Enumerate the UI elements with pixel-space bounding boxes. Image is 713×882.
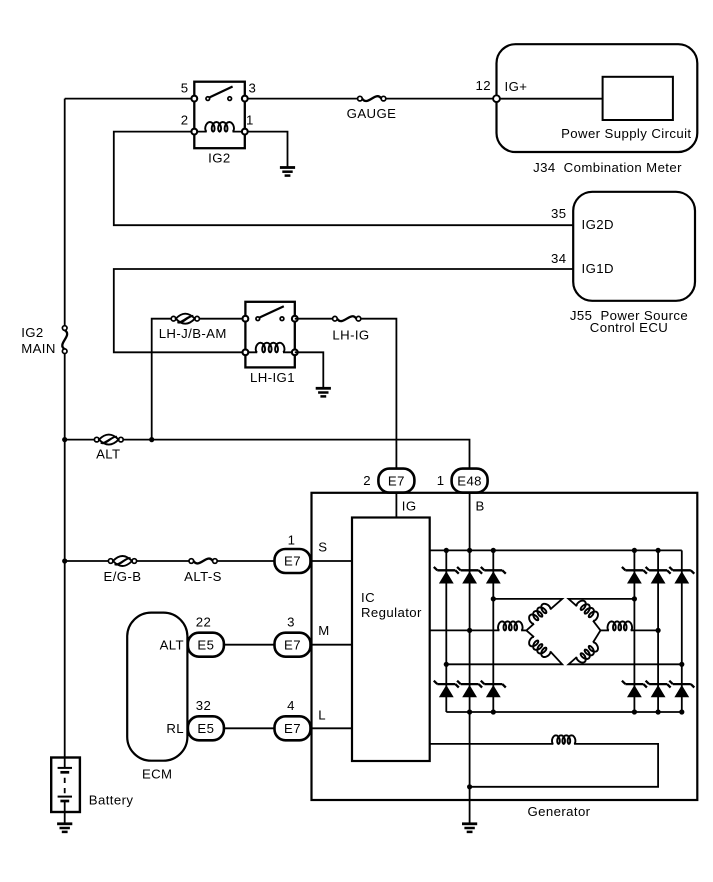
svg-text:IG2D: IG2D [582, 217, 614, 232]
svg-text:5: 5 [181, 80, 189, 95]
svg-text:LH-J/B-AM: LH-J/B-AM [159, 326, 227, 341]
connector E7 pin 3 (M) [275, 615, 311, 657]
connector E7 pin 2 (IG) [363, 469, 414, 493]
junction dot (left phase mid / B column) [467, 628, 472, 633]
svg-text:M: M [318, 623, 329, 638]
wire stator right phase row (coil to column) [601, 629, 609, 631]
ground (generator) [462, 824, 477, 832]
battery bottom lead [64, 801, 66, 824]
relay IG2 [181, 80, 256, 165]
wire S row inside generator to IC regulator [311, 560, 353, 562]
ECU J34 Combination Meter [476, 44, 698, 175]
fuse ALT-S [184, 559, 222, 584]
wire ALT row to connector E48 [65, 440, 470, 469]
field coil (rotor) [552, 735, 575, 744]
svg-text:1: 1 [246, 113, 254, 128]
svg-text:E48: E48 [457, 473, 482, 488]
svg-text:ECM: ECM [142, 766, 173, 781]
wire IG+ to power supply circuit [497, 98, 603, 100]
relay LH-IG1 pin (bottom right) [292, 349, 298, 355]
stator left top branch [493, 599, 562, 631]
stator coil right upper [577, 601, 599, 621]
svg-text:IG2: IG2 [21, 325, 43, 340]
junction dot (top bus left 3) [491, 548, 496, 553]
svg-text:3: 3 [249, 80, 257, 95]
wire stator left center link [521, 629, 526, 631]
junction dot (left phase bottom / column 1) [444, 662, 449, 667]
wire L row: E5 to E7 [224, 727, 275, 729]
wire field circuit from IC regulator [430, 743, 554, 745]
relay LH-IG1 coil [245, 351, 294, 353]
svg-text:Battery: Battery [89, 792, 134, 807]
svg-text:GAUGE: GAUGE [347, 106, 397, 121]
wire relay pin 3 to J34 pin 12 [245, 98, 493, 100]
diode bottom right 2 [646, 681, 671, 698]
relay IG2 switch contacts [206, 97, 210, 101]
svg-text:IG+: IG+ [505, 79, 528, 94]
svg-text:3: 3 [287, 615, 295, 630]
ground (IG2 relay) [280, 168, 295, 176]
wire E48 B line down to generator ground [469, 493, 471, 824]
wire LH-IG row down to connector E7 [295, 319, 397, 469]
junction dot (bottom bus B) [467, 709, 472, 714]
junction dot (top bus right 2) [656, 548, 661, 553]
stator left bottom branch [446, 630, 562, 664]
junction dot (left phase top / column 3) [491, 596, 496, 601]
wire stator left phase row (M row to coil) [430, 629, 500, 631]
junction dot (top bus B) [467, 548, 472, 553]
svg-text:E5: E5 [197, 637, 214, 652]
diode top left 2 [457, 567, 482, 584]
svg-text:4: 4 [287, 698, 295, 713]
ground (battery) [57, 824, 72, 832]
stator coil right lower [577, 642, 599, 662]
diode bottom left 3 [481, 681, 506, 698]
wire rectifier column left 3 [492, 550, 494, 712]
battery dashed link [64, 778, 66, 794]
svg-text:Regulator: Regulator [361, 605, 422, 620]
fusible link ALT [94, 435, 123, 462]
pin 12 (J34) [493, 95, 500, 102]
diode bottom left 2 [457, 681, 482, 698]
battery cell 1 long plate [58, 767, 72, 769]
stator right top branch [569, 599, 635, 631]
junction dot (right phase mid / column 2) [656, 628, 661, 633]
connector E48 pin 1 (B) [437, 469, 488, 493]
svg-text:32: 32 [196, 698, 211, 713]
wire relay pin 1 to ground [245, 132, 288, 168]
junction dot (bottom bus right 2) [656, 709, 661, 714]
svg-text:1: 1 [288, 532, 296, 547]
svg-text:Power Supply Circuit: Power Supply Circuit [561, 126, 691, 141]
diode top left 3 [481, 567, 506, 584]
svg-text:E5: E5 [197, 721, 214, 736]
svg-text:B: B [476, 499, 485, 514]
svg-text:ALT: ALT [160, 637, 184, 652]
svg-text:IG2: IG2 [208, 151, 230, 166]
relay IG2 coil [194, 131, 245, 133]
diode bottom left 1 [434, 681, 459, 698]
junction dot (LH-J/B-AM drop on ALT row) [149, 437, 154, 442]
relay IG2 pin 3 [242, 96, 248, 102]
wire S row: main line to connector E7 [65, 560, 275, 562]
wire rectifier column right 2 [657, 550, 659, 712]
svg-text:1: 1 [437, 473, 445, 488]
wire rectifier column left 1 [445, 550, 447, 712]
junction dot (top bus left 1) [444, 548, 449, 553]
relay LH-IG1 [243, 302, 298, 385]
wire field circuit return to B line [470, 744, 658, 787]
relay IG2 pin 1 [242, 129, 248, 135]
relay IG2 pin 5 [191, 96, 197, 102]
fuse LH-IG [332, 316, 369, 342]
relay LH-IG1 switch contacts [256, 317, 260, 321]
wire LH-J/B-AM row and drop to ALT row [152, 319, 246, 440]
IC regulator box [352, 518, 430, 762]
battery cell 1 short plate [60, 771, 69, 774]
svg-text:S: S [318, 540, 327, 555]
svg-text:LH-IG: LH-IG [332, 328, 369, 343]
stator coil right horizontal [608, 621, 633, 630]
relay LH-IG1 pin (top right) [292, 316, 298, 322]
svg-text:J34 Combination Meter: J34 Combination Meter [533, 160, 682, 175]
ECU ECM [127, 613, 187, 782]
diode top left 1 [434, 567, 459, 584]
svg-text:Control ECU: Control ECU [590, 320, 668, 335]
svg-text:MAIN: MAIN [21, 341, 56, 356]
stator coil left horizontal [498, 621, 523, 630]
junction dot (main/S row) [62, 558, 67, 563]
wire L row inside generator [311, 727, 353, 729]
wire J55 IG1D (pin 34) to relay LH-IG1 coil [114, 269, 573, 352]
junction dot (bottom bus right 1) [632, 709, 637, 714]
ground (LH-IG1) [316, 388, 331, 396]
ECU J55 Power Source Control ECU [551, 192, 695, 335]
relay IG2 pin 2 [191, 129, 197, 135]
wire M row: E5 to E7 [224, 644, 275, 646]
svg-text:E7: E7 [388, 473, 405, 488]
wire main vertical feed (left) [64, 99, 66, 758]
diode top right 2 [646, 567, 671, 584]
relay LH-IG1 pin (bottom left) [243, 349, 249, 355]
fusible link E/G-B [104, 556, 142, 584]
wire rectifier column right 3 [681, 550, 683, 712]
diode bottom right 3 [669, 681, 694, 698]
svg-text:34: 34 [551, 251, 566, 266]
stator coil left upper [529, 604, 550, 624]
fusible link LH-J/B-AM [159, 314, 227, 342]
svg-text:IG: IG [402, 499, 417, 514]
svg-text:ALT: ALT [96, 447, 120, 462]
wire top row to relay pin 5 [65, 98, 195, 100]
diode top right 1 [622, 567, 647, 584]
battery [51, 758, 133, 824]
svg-text:L: L [318, 707, 326, 722]
svg-text:35: 35 [551, 206, 566, 221]
svg-text:RL: RL [166, 721, 184, 736]
relay LH-IG1 switch blade [259, 306, 284, 317]
svg-text:22: 22 [196, 615, 211, 630]
battery top lead [64, 758, 66, 768]
fuse GAUGE [347, 96, 397, 121]
junction dot (top bus right 1) [632, 548, 637, 553]
wire top bus (B+) [430, 549, 682, 551]
diode bottom right 1 [622, 681, 647, 698]
svg-text:LH-IG1: LH-IG1 [250, 370, 295, 385]
wire bottom bus [446, 711, 682, 713]
generator box [312, 493, 698, 800]
stator right bottom branch [569, 630, 682, 664]
svg-text:ALT-S: ALT-S [184, 569, 222, 584]
svg-text:Generator: Generator [528, 804, 591, 819]
wire E7 IG lead into IC regulator [395, 493, 397, 518]
fuse IG2 MAIN [21, 325, 67, 356]
relay IG2 switch blade [209, 87, 232, 98]
battery cell 2 long plate [58, 796, 72, 798]
svg-text:IG1D: IG1D [582, 261, 614, 276]
stator coil left lower [529, 637, 550, 657]
connector E7 pin 1 (S) [275, 532, 311, 573]
battery cell 2 short plate [60, 800, 69, 803]
junction dot (right phase top / column 1) [632, 596, 637, 601]
svg-text:E/G-B: E/G-B [104, 569, 142, 584]
svg-text:2: 2 [363, 473, 371, 488]
junction dot (field return / B line) [467, 784, 472, 789]
connector E5 pin 32 (RL) [188, 698, 224, 740]
wire relay pin 2 to J55 IG2D (pin 35) [114, 132, 573, 226]
connector E5 pin 22 (ALT) [188, 615, 224, 657]
svg-text:12: 12 [476, 78, 491, 93]
junction dot (bottom bus left 3) [491, 709, 496, 714]
junction dot (right phase bottom / column 3) [679, 662, 684, 667]
wire relay LH-IG1 coil to ground [295, 352, 324, 388]
svg-text:IC: IC [361, 590, 375, 605]
svg-text:E7: E7 [284, 637, 301, 652]
svg-text:E7: E7 [284, 554, 301, 569]
wire M row inside generator [311, 644, 353, 646]
wire rectifier column right 1 [633, 550, 635, 712]
junction dot (main/ALT row) [62, 437, 67, 442]
diode top right 3 [669, 567, 694, 584]
connector E7 pin 4 (L) [275, 698, 311, 740]
svg-text:2: 2 [181, 112, 189, 127]
block Power Supply Circuit [603, 77, 673, 120]
junction dot (bottom bus right 3) [679, 709, 684, 714]
svg-text:E7: E7 [284, 721, 301, 736]
relay LH-IG1 pin (top left) [243, 316, 249, 322]
